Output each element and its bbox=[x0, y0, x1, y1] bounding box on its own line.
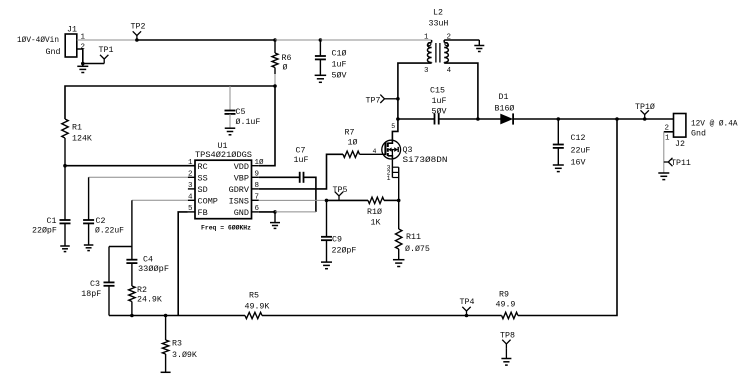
op-amp U1 TPS40210DGS body bbox=[195, 160, 252, 219]
value 22uF (C12) bbox=[571, 147, 591, 156]
svg-text:5: 5 bbox=[391, 123, 395, 130]
pin 10 lead U1 (VDD) bbox=[252, 165, 259, 167]
value 24.9K (R2) bbox=[137, 296, 162, 305]
wire R6 node to C10 node (thin) bbox=[275, 39, 320, 41]
svg-text:TPS4Ø21ØDGS: TPS4Ø21ØDGS bbox=[195, 150, 252, 160]
junction C10 top bbox=[319, 38, 323, 42]
svg-text:RC: RC bbox=[198, 162, 208, 172]
pin name ISNS U1 bbox=[229, 197, 249, 207]
label TP1 bbox=[99, 46, 114, 55]
label TP8 bbox=[500, 332, 515, 341]
pin 5 lead U1 (FB) bbox=[188, 211, 195, 213]
pin number 4 Q3 bbox=[373, 148, 377, 155]
wire SS down to C2 bbox=[88, 177, 90, 220]
wire switch node to C15 bbox=[398, 118, 435, 120]
label R5 bbox=[249, 292, 259, 301]
pin number 7 U1 bbox=[255, 194, 260, 202]
svg-text:C9: C9 bbox=[332, 236, 342, 245]
transistor Q3 body circle bbox=[382, 140, 401, 159]
svg-text:4: 4 bbox=[447, 67, 452, 75]
pin name FB U1 bbox=[198, 208, 208, 218]
label TPS40210DGS bbox=[195, 150, 252, 160]
junction RC node bbox=[63, 164, 67, 168]
ground at J1 bbox=[77, 64, 88, 73]
connector J2 bbox=[674, 114, 686, 138]
value 1uF (C10) bbox=[332, 61, 347, 70]
capacitor C5 bbox=[225, 111, 236, 128]
value 1K (R10) bbox=[371, 219, 381, 228]
svg-text:2: 2 bbox=[188, 171, 193, 179]
pin number 2 Q3 bbox=[387, 170, 391, 177]
junction GND node bbox=[273, 210, 277, 214]
label TP11 bbox=[671, 159, 691, 168]
pin number 3 U1 bbox=[188, 182, 193, 190]
svg-text:124K: 124K bbox=[72, 135, 92, 144]
capacitor C4 bbox=[126, 260, 137, 286]
pin number 5 Q3 bbox=[391, 123, 395, 130]
wire bottom rail left bbox=[109, 315, 245, 317]
svg-text:SD: SD bbox=[198, 185, 208, 195]
ground at C5 bbox=[225, 128, 236, 135]
value 0.075 (R11) bbox=[405, 244, 430, 254]
svg-text:COMP: COMP bbox=[198, 197, 218, 207]
wire ISNS node to R10 bbox=[327, 199, 369, 201]
label C15 bbox=[430, 87, 445, 96]
svg-text:C3: C3 bbox=[90, 280, 100, 289]
label C1 bbox=[47, 217, 57, 226]
resistor R10 bbox=[368, 197, 384, 203]
test point TP7 bbox=[380, 95, 398, 103]
pin number 1 Q3 bbox=[387, 175, 391, 182]
value 49.9K (R5) bbox=[245, 303, 270, 312]
pin number 4 U1 bbox=[188, 194, 193, 202]
svg-text:R5: R5 bbox=[249, 292, 259, 301]
value 10 (R7) bbox=[348, 138, 358, 148]
svg-text:24.9K: 24.9K bbox=[137, 296, 162, 305]
label L2 bbox=[433, 9, 443, 18]
L2 polarity dot pin2 bbox=[445, 43, 448, 46]
label C5 bbox=[236, 108, 246, 117]
pin number 5 U1 bbox=[188, 205, 193, 213]
wire U1 pin9 VBP to C7 bbox=[259, 176, 300, 178]
svg-text:1Ø: 1Ø bbox=[348, 138, 358, 148]
svg-text:4: 4 bbox=[188, 194, 193, 202]
wire J1 pin1 to TP2 (Vin net, thin) bbox=[77, 39, 137, 41]
pin 7 lead U1 (ISNS) bbox=[252, 199, 259, 201]
svg-text:18pF: 18pF bbox=[81, 290, 101, 299]
svg-text:Si73Ø8DN: Si73Ø8DN bbox=[403, 155, 448, 165]
pin 6 lead U1 (GND) bbox=[252, 211, 259, 213]
pin name COMP U1 bbox=[198, 197, 218, 207]
wire COMP down to C4 bbox=[131, 200, 133, 259]
value 0 (R6) bbox=[283, 63, 288, 73]
svg-text:7: 7 bbox=[255, 194, 260, 202]
test point TP8 bbox=[502, 340, 510, 359]
junction L2 pin4 / D1 anode bbox=[476, 117, 480, 121]
junction R6 bottom / VDD node bbox=[273, 84, 277, 88]
svg-text:1uF: 1uF bbox=[432, 97, 447, 106]
svg-text:12V @ Ø.4A: 12V @ Ø.4A bbox=[691, 119, 738, 129]
svg-text:1: 1 bbox=[424, 34, 429, 42]
svg-text:J1: J1 bbox=[67, 26, 77, 35]
capacitor C15 bbox=[435, 114, 439, 125]
capacitor C9 wire bbox=[326, 200, 328, 236]
junction ISNS / C9 bbox=[325, 199, 329, 203]
svg-text:Freq = 6ØØKHz: Freq = 6ØØKHz bbox=[201, 224, 251, 232]
svg-text:TP1: TP1 bbox=[99, 46, 114, 55]
wire RC node to U1 pin1 bbox=[65, 165, 195, 167]
svg-text:ISNS: ISNS bbox=[229, 197, 249, 207]
ground at R11 bbox=[393, 260, 405, 267]
pin number 1 J2 bbox=[665, 135, 670, 143]
junction TP2 bbox=[135, 38, 139, 42]
wire R9 to output riser bbox=[518, 119, 617, 316]
pin number 10 U1 bbox=[255, 158, 265, 167]
wire TP10 to J2 pin2 bbox=[645, 118, 674, 120]
pin name SD U1 bbox=[198, 185, 208, 195]
Q3 channel bar bbox=[387, 143, 389, 157]
value 0.1uF (C5) bbox=[236, 117, 261, 127]
wire U1 pin8 GDRV to R7 bbox=[259, 154, 343, 189]
svg-text:1uF: 1uF bbox=[332, 61, 347, 70]
svg-text:22uF: 22uF bbox=[571, 147, 591, 156]
pin 8 lead U1 (GDRV) bbox=[252, 188, 259, 190]
wire Q3 source bus bbox=[398, 167, 400, 200]
wire U1 pin7 ISNS (thin) bbox=[259, 199, 327, 201]
wire ground node to TP1 bbox=[83, 63, 104, 65]
label R2 bbox=[137, 286, 147, 295]
test point TP11 bbox=[664, 158, 673, 166]
pin 1 label J1 bbox=[81, 34, 86, 42]
value 1uF (C15) bbox=[432, 97, 447, 106]
svg-text:D1: D1 bbox=[499, 93, 509, 102]
svg-text:1: 1 bbox=[665, 135, 670, 143]
Q3 gate bar bbox=[384, 143, 386, 156]
wire to TP10 bbox=[617, 118, 645, 120]
wire R5 to TP4 bbox=[262, 315, 467, 317]
pin number 2 U1 bbox=[188, 171, 193, 179]
pin number 2 L2 bbox=[447, 34, 452, 42]
value 124K (R1) bbox=[72, 135, 92, 144]
wire VDD rail from R1 to R6 bottom bbox=[65, 86, 275, 119]
wire TP4 to R9 bbox=[467, 315, 502, 317]
pin number 4 L2 bbox=[447, 67, 452, 75]
junction R6 top bbox=[273, 38, 277, 42]
pin number 3 Q3 bbox=[387, 165, 391, 172]
label J2 bbox=[675, 140, 685, 149]
svg-text:R1: R1 bbox=[72, 124, 82, 133]
wire C15 to L2 pin4 node bbox=[439, 118, 478, 120]
svg-text:C1Ø: C1Ø bbox=[332, 49, 347, 59]
value 0.22uF (C2) bbox=[95, 226, 124, 236]
wire U1 pin4 COMP (thin) bbox=[132, 199, 188, 201]
label Q3 bbox=[403, 146, 413, 155]
label TP4 bbox=[460, 298, 475, 307]
label C7 bbox=[296, 147, 306, 156]
label TP2 bbox=[131, 23, 146, 32]
pin 4 lead U1 (COMP) bbox=[188, 199, 195, 201]
svg-text:B16Ø: B16Ø bbox=[495, 104, 515, 114]
inductor L2 primary winding bbox=[427, 40, 431, 63]
pin number 1 U1 bbox=[188, 159, 193, 167]
value B160 (D1) bbox=[495, 104, 515, 114]
label Gnd (output) bbox=[691, 129, 706, 139]
junction C12 top bbox=[557, 117, 561, 121]
svg-text:22ØpF: 22ØpF bbox=[332, 246, 357, 256]
pin 2 label J1 bbox=[81, 44, 86, 52]
wire GND node to C7 loop (thin) bbox=[275, 211, 316, 213]
test point TP4 bbox=[462, 307, 470, 316]
label R10 bbox=[367, 207, 382, 217]
label Freq = 600KHz bbox=[201, 224, 251, 232]
pin name SS U1 bbox=[198, 174, 208, 184]
wire L2 pin2 to ground bbox=[444, 39, 479, 41]
pin number 3 L2 bbox=[424, 67, 429, 75]
label C3 bbox=[90, 280, 100, 289]
svg-text:TP8: TP8 bbox=[500, 332, 515, 341]
wire L2 pin3 to switch node bbox=[398, 63, 432, 119]
ground at J2 bbox=[658, 173, 669, 180]
wire U1 pin10 VDD up to R6 bottom bbox=[259, 86, 275, 166]
wire J1 pin2 down to ground node bbox=[77, 49, 83, 64]
svg-text:R6: R6 bbox=[282, 54, 292, 63]
capacitor C7 bbox=[300, 172, 304, 183]
test point TP5 bbox=[335, 192, 343, 201]
ground at TP8 bbox=[501, 359, 511, 366]
R3 bottom terminal bbox=[161, 371, 171, 373]
capacitor C9 bbox=[321, 237, 332, 262]
Q3 source pin stub 1 bbox=[392, 177, 398, 179]
value 220pF (C9) bbox=[332, 246, 357, 256]
label 12V @ 0.4A bbox=[691, 119, 738, 129]
svg-text:R7: R7 bbox=[345, 129, 355, 138]
label C2 bbox=[96, 217, 106, 226]
svg-text:Ø: Ø bbox=[283, 63, 288, 73]
wire U1 pin6 GND bbox=[259, 211, 275, 213]
value 220pF (C1) bbox=[32, 226, 57, 236]
capacitor C10 bbox=[315, 40, 326, 75]
label TP10 bbox=[635, 102, 655, 112]
Q3 source internal bbox=[388, 156, 393, 160]
label R1 bbox=[72, 124, 82, 133]
svg-text:5: 5 bbox=[188, 205, 193, 213]
inductor L2 secondary winding bbox=[444, 40, 448, 63]
value 16V (C12) bbox=[571, 159, 586, 168]
svg-text:VBP: VBP bbox=[234, 174, 249, 184]
value 33uH (L2) bbox=[429, 20, 449, 29]
diode D1 bbox=[500, 113, 513, 124]
label D1 bbox=[499, 93, 509, 102]
svg-text:C1: C1 bbox=[47, 217, 57, 226]
label U1 bbox=[218, 142, 228, 151]
svg-text:VDD: VDD bbox=[234, 162, 249, 172]
pin number 6 U1 bbox=[255, 205, 260, 213]
wire C3 branch top bbox=[109, 246, 132, 248]
junction TP7 node bbox=[396, 97, 400, 101]
wire C10 node to L2 pin1 (thin) bbox=[320, 39, 431, 41]
svg-text:Ø.22uF: Ø.22uF bbox=[95, 226, 124, 236]
value 50V (C10) bbox=[332, 71, 347, 81]
svg-text:1ØV-4ØVin: 1ØV-4ØVin bbox=[17, 35, 59, 45]
svg-text:U1: U1 bbox=[218, 142, 228, 151]
test point TP1 bbox=[100, 55, 108, 64]
svg-text:C7: C7 bbox=[296, 147, 306, 156]
capacitor C12 bbox=[553, 145, 564, 165]
value 18pF (C3) bbox=[81, 290, 101, 299]
svg-text:Ø.Ø75: Ø.Ø75 bbox=[405, 244, 430, 254]
ground at C12 bbox=[553, 165, 564, 172]
label R3 bbox=[172, 340, 182, 349]
label R7 bbox=[345, 129, 355, 138]
svg-text:1: 1 bbox=[387, 175, 391, 182]
svg-text:R11: R11 bbox=[406, 233, 421, 242]
label R11 bbox=[406, 233, 421, 242]
svg-text:3.Ø9K: 3.Ø9K bbox=[172, 350, 197, 360]
label 10V-40Vin bbox=[17, 35, 59, 45]
capacitor C3 bbox=[104, 282, 115, 315]
svg-text:TP11: TP11 bbox=[671, 159, 691, 168]
svg-text:9: 9 bbox=[255, 171, 260, 179]
resistor R11 bbox=[396, 200, 402, 259]
svg-text:TP1Ø: TP1Ø bbox=[635, 102, 655, 112]
pin name GND U1 bbox=[234, 208, 249, 218]
Q3 body arrow bbox=[388, 147, 394, 155]
svg-text:1K: 1K bbox=[371, 219, 381, 228]
pin 1 lead U1 (RC) bbox=[188, 165, 195, 167]
junction J1 ground node bbox=[81, 62, 85, 66]
label R6 bbox=[282, 54, 292, 63]
label TP7 bbox=[366, 97, 381, 106]
resistor R7 bbox=[343, 151, 360, 157]
pin name VBP U1 bbox=[234, 174, 249, 184]
wire U1 pin5 FB bbox=[178, 212, 188, 316]
svg-text:1: 1 bbox=[188, 159, 193, 167]
label R9 bbox=[499, 291, 509, 300]
pin number 9 U1 bbox=[255, 171, 260, 179]
pin name VDD U1 bbox=[234, 162, 249, 172]
svg-text:22ØpF: 22ØpF bbox=[32, 226, 57, 236]
pin 2 lead U1 (SS) bbox=[188, 176, 195, 178]
svg-text:49.9: 49.9 bbox=[496, 301, 516, 310]
resistor R5 bbox=[245, 312, 262, 318]
wire C7 right to GND net bbox=[304, 177, 316, 212]
svg-text:49.9K: 49.9K bbox=[245, 303, 270, 312]
label C4 bbox=[143, 256, 153, 265]
svg-text:C4: C4 bbox=[143, 256, 153, 265]
wire Q3 source bbox=[391, 160, 393, 178]
svg-text:Q3: Q3 bbox=[403, 146, 413, 155]
resistor R2 bbox=[129, 286, 135, 316]
wire C12 node to feedback riser bbox=[558, 118, 617, 120]
wire to D1 anode bbox=[478, 118, 501, 120]
svg-text:Gnd: Gnd bbox=[691, 129, 706, 139]
svg-text:16V: 16V bbox=[571, 159, 586, 168]
svg-text:33uH: 33uH bbox=[429, 20, 449, 29]
svg-text:1uF: 1uF bbox=[294, 156, 309, 165]
ground at C2 bbox=[84, 245, 94, 251]
connector J1 bbox=[65, 34, 77, 57]
svg-text:5ØV: 5ØV bbox=[432, 107, 447, 117]
label C10 bbox=[332, 49, 347, 59]
pin 3 lead U1 (SD) bbox=[188, 188, 195, 190]
wire TP2 to R6 node bbox=[137, 39, 275, 41]
label J1 bbox=[67, 26, 77, 35]
label TP5 bbox=[333, 186, 348, 195]
svg-text:C5: C5 bbox=[236, 108, 246, 117]
junction output / feedback riser bbox=[615, 117, 619, 121]
Q3 source pin stub 2 bbox=[392, 171, 398, 173]
wire R10 to Q3 source node bbox=[384, 199, 399, 201]
value 3300pF (C4) bbox=[138, 264, 169, 274]
svg-text:Ø.1uF: Ø.1uF bbox=[236, 117, 261, 127]
svg-text:R1Ø: R1Ø bbox=[367, 207, 382, 217]
svg-text:L2: L2 bbox=[433, 9, 443, 18]
svg-text:TP4: TP4 bbox=[460, 298, 475, 307]
value 49.9 (R9) bbox=[496, 301, 516, 310]
wire C5 tap (thin) bbox=[229, 86, 231, 111]
wire C3 branch down bbox=[108, 247, 110, 283]
svg-text:3: 3 bbox=[188, 182, 193, 190]
svg-text:Gnd: Gnd bbox=[46, 47, 61, 57]
pin number 2 J2 bbox=[665, 125, 670, 133]
capacitor C1 bbox=[60, 220, 71, 246]
svg-text:R3: R3 bbox=[172, 340, 182, 349]
junction R2 bottom bbox=[130, 314, 134, 318]
svg-text:C2: C2 bbox=[96, 217, 106, 226]
label Gnd (input) bbox=[46, 47, 61, 57]
wire D1 cathode to C12 bbox=[513, 118, 559, 120]
label C12 bbox=[571, 134, 586, 143]
svg-text:3: 3 bbox=[424, 67, 429, 75]
L2 polarity dot pin1 bbox=[428, 43, 431, 46]
svg-text:C15: C15 bbox=[430, 87, 445, 96]
pin 9 lead U1 (VBP) bbox=[252, 176, 259, 178]
wire Q3 drain bbox=[392, 119, 398, 140]
svg-text:FB: FB bbox=[198, 208, 208, 218]
resistor R3 bbox=[162, 316, 168, 373]
svg-text:6: 6 bbox=[255, 205, 260, 213]
value 1uF (C7) bbox=[294, 156, 309, 165]
pin number 1 L2 bbox=[424, 34, 429, 42]
pin name RC U1 bbox=[198, 162, 208, 172]
svg-text:TP7: TP7 bbox=[366, 97, 381, 106]
resistor R9 bbox=[502, 312, 518, 318]
junction switch node rail bbox=[396, 117, 400, 121]
wire U1 pin2 SS (thin) bbox=[89, 176, 188, 178]
resistor R1 bbox=[62, 119, 68, 166]
svg-text:J2: J2 bbox=[675, 140, 685, 149]
value Si7308DN (Q3) bbox=[403, 155, 448, 165]
svg-text:R9: R9 bbox=[499, 291, 509, 300]
resistor R6 bbox=[272, 40, 278, 86]
Q3 body diode bbox=[394, 147, 398, 152]
Q3 drain internal bbox=[388, 140, 393, 143]
svg-text:5ØV: 5ØV bbox=[332, 71, 347, 81]
ground at C9 bbox=[321, 262, 332, 269]
svg-text:C12: C12 bbox=[571, 134, 586, 143]
pin number 8 U1 bbox=[255, 182, 260, 190]
ground at C1 bbox=[60, 246, 70, 252]
svg-text:GDRV: GDRV bbox=[229, 185, 250, 195]
ground at L2 pin2 bbox=[474, 40, 484, 52]
capacitor C2 bbox=[83, 220, 94, 245]
value 3.09K (R3) bbox=[172, 350, 197, 360]
junction R3 top bbox=[164, 314, 168, 318]
junction Q3 source / R11 bbox=[397, 199, 401, 203]
svg-text:GND: GND bbox=[234, 208, 249, 218]
wire R7 to Q3 gate bbox=[360, 153, 386, 155]
wire L2 pin4 down bbox=[444, 63, 478, 119]
